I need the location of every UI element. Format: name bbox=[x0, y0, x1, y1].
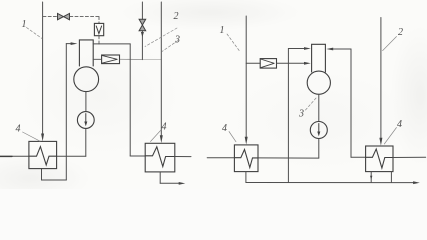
wire: dashed line valve to corner and down to solenoid box bbox=[70, 17, 99, 45]
wire: riser B2 (main 2, right diagram) bbox=[380, 18, 382, 139]
arrow into box4 top bbox=[379, 138, 382, 146]
svg-text:3: 3 bbox=[174, 35, 180, 46]
valve (vertical bowtie) on riser 2 bbox=[139, 19, 146, 31]
leader for label 1 right bbox=[227, 34, 240, 51]
wire: condensate riser 2 with valve bbox=[141, 2, 143, 60]
leader for label 4 box3 bbox=[229, 132, 236, 142]
wire: riser 3 (plain vertical) to box2 bbox=[160, 2, 162, 136]
small arrow on box4 left drain bbox=[370, 176, 372, 180]
zigzag coil in box2 bbox=[145, 147, 175, 167]
pump arrow bbox=[318, 124, 320, 134]
leader for label 3 right bbox=[306, 98, 317, 111]
vessel circle bbox=[74, 67, 99, 92]
leader for label 2 bbox=[145, 28, 177, 47]
wire: throttle to vessel bbox=[277, 62, 306, 64]
svg-text:4: 4 bbox=[162, 122, 167, 133]
svg-text:1: 1 bbox=[220, 25, 225, 36]
zigzag coil in box1 bbox=[29, 147, 57, 165]
wire: throttle feed line bbox=[246, 62, 260, 64]
svg-text:2: 2 bbox=[398, 27, 403, 38]
arrow into box3 top bbox=[245, 137, 248, 145]
leader for label 3 bbox=[162, 41, 178, 52]
wire: evaporator through line (left) bbox=[0, 155, 86, 157]
arrow at box2 drain end bbox=[179, 182, 186, 185]
wire: box4 drains to rail bbox=[371, 172, 391, 183]
throttle valve (right, rectangle with nozzle) bbox=[260, 59, 276, 69]
pump arrow bbox=[85, 114, 87, 123]
wire: box2 drain bbox=[160, 172, 181, 183]
arrow below valve on riser 2 bbox=[141, 32, 144, 37]
vessel (circulation receiver) rectangle bbox=[79, 40, 93, 66]
V glyph inside box bbox=[96, 26, 101, 34]
arrow into evaporator box1 top bbox=[41, 134, 44, 142]
leader for label 1 bbox=[27, 28, 43, 39]
leader for label 4 box2 bbox=[151, 130, 162, 142]
svg-text:4: 4 bbox=[397, 119, 402, 130]
wire: pump riser below vessel bbox=[85, 92, 87, 157]
pump P (circle with down arrow) bbox=[77, 112, 94, 129]
valve (horizontal bowtie) bbox=[58, 13, 70, 19]
wire: throttle stubs bbox=[93, 58, 142, 60]
svg-text:1: 1 bbox=[22, 19, 27, 30]
vessel (right) rectangle bbox=[312, 44, 326, 72]
arrow into vessel left side bbox=[71, 42, 78, 45]
wire: branch riser and upper vessel inlet bbox=[288, 49, 305, 183]
wire: dashed control line from line A to valve bbox=[43, 16, 57, 18]
throttle valve (left, rectangle with nozzle) bbox=[102, 55, 120, 64]
svg-text:2: 2 bbox=[174, 11, 179, 22]
wire: riser B1 (supply main 1, right diagram) bbox=[245, 16, 247, 138]
leader for label 4 box1 bbox=[23, 132, 41, 141]
wire: box4 outlet to right edge bbox=[393, 156, 426, 158]
wire: box2 outlet right bbox=[175, 156, 191, 158]
nozzle lines bbox=[261, 59, 275, 68]
wire: faint connector from riser 2 corner to riser 3 bbox=[142, 59, 161, 61]
svg-text:3: 3 bbox=[298, 109, 304, 120]
float valve box V bbox=[94, 23, 103, 35]
evaporator box2 bbox=[145, 143, 175, 172]
wire: vapour return riser from box1 to vessel inlet bbox=[42, 44, 73, 180]
wire: main riser line A (supply main 1) bbox=[42, 2, 44, 134]
arrow into vessel right side (pointing left) bbox=[326, 48, 333, 51]
nozzle lines bbox=[102, 55, 117, 63]
evaporator box4 bbox=[366, 146, 393, 172]
wire: vessel outlet to riser and to box2 bbox=[93, 44, 145, 156]
leader for label 4 box4 bbox=[384, 128, 396, 145]
wire: pump riser (right) bbox=[318, 94, 320, 158]
vessel circle (right) bbox=[307, 71, 330, 94]
pump (right, circle with down arrow) bbox=[310, 122, 327, 139]
evaporator box1 bbox=[29, 141, 57, 168]
svg-text:4: 4 bbox=[16, 124, 21, 135]
leader for label 2 right bbox=[383, 37, 397, 51]
wire: downcomer to box4 bbox=[351, 49, 366, 157]
wire: box3 drain bbox=[245, 172, 247, 183]
wire: pump discharge to box3 bbox=[207, 157, 319, 159]
arrow into vessel lower left bbox=[304, 62, 311, 65]
wire: bottom rail with outlet arrow bbox=[246, 182, 415, 184]
zigzag coil in box4 bbox=[366, 149, 393, 168]
arrow into vessel upper left bbox=[304, 47, 311, 50]
svg-text:4: 4 bbox=[222, 123, 227, 134]
evaporator box3 bbox=[234, 145, 258, 172]
arrow into box2 top bbox=[160, 135, 163, 143]
wire: vessel right-top inlet from downcomer bbox=[331, 48, 352, 50]
zigzag coil in box3 bbox=[234, 150, 258, 168]
